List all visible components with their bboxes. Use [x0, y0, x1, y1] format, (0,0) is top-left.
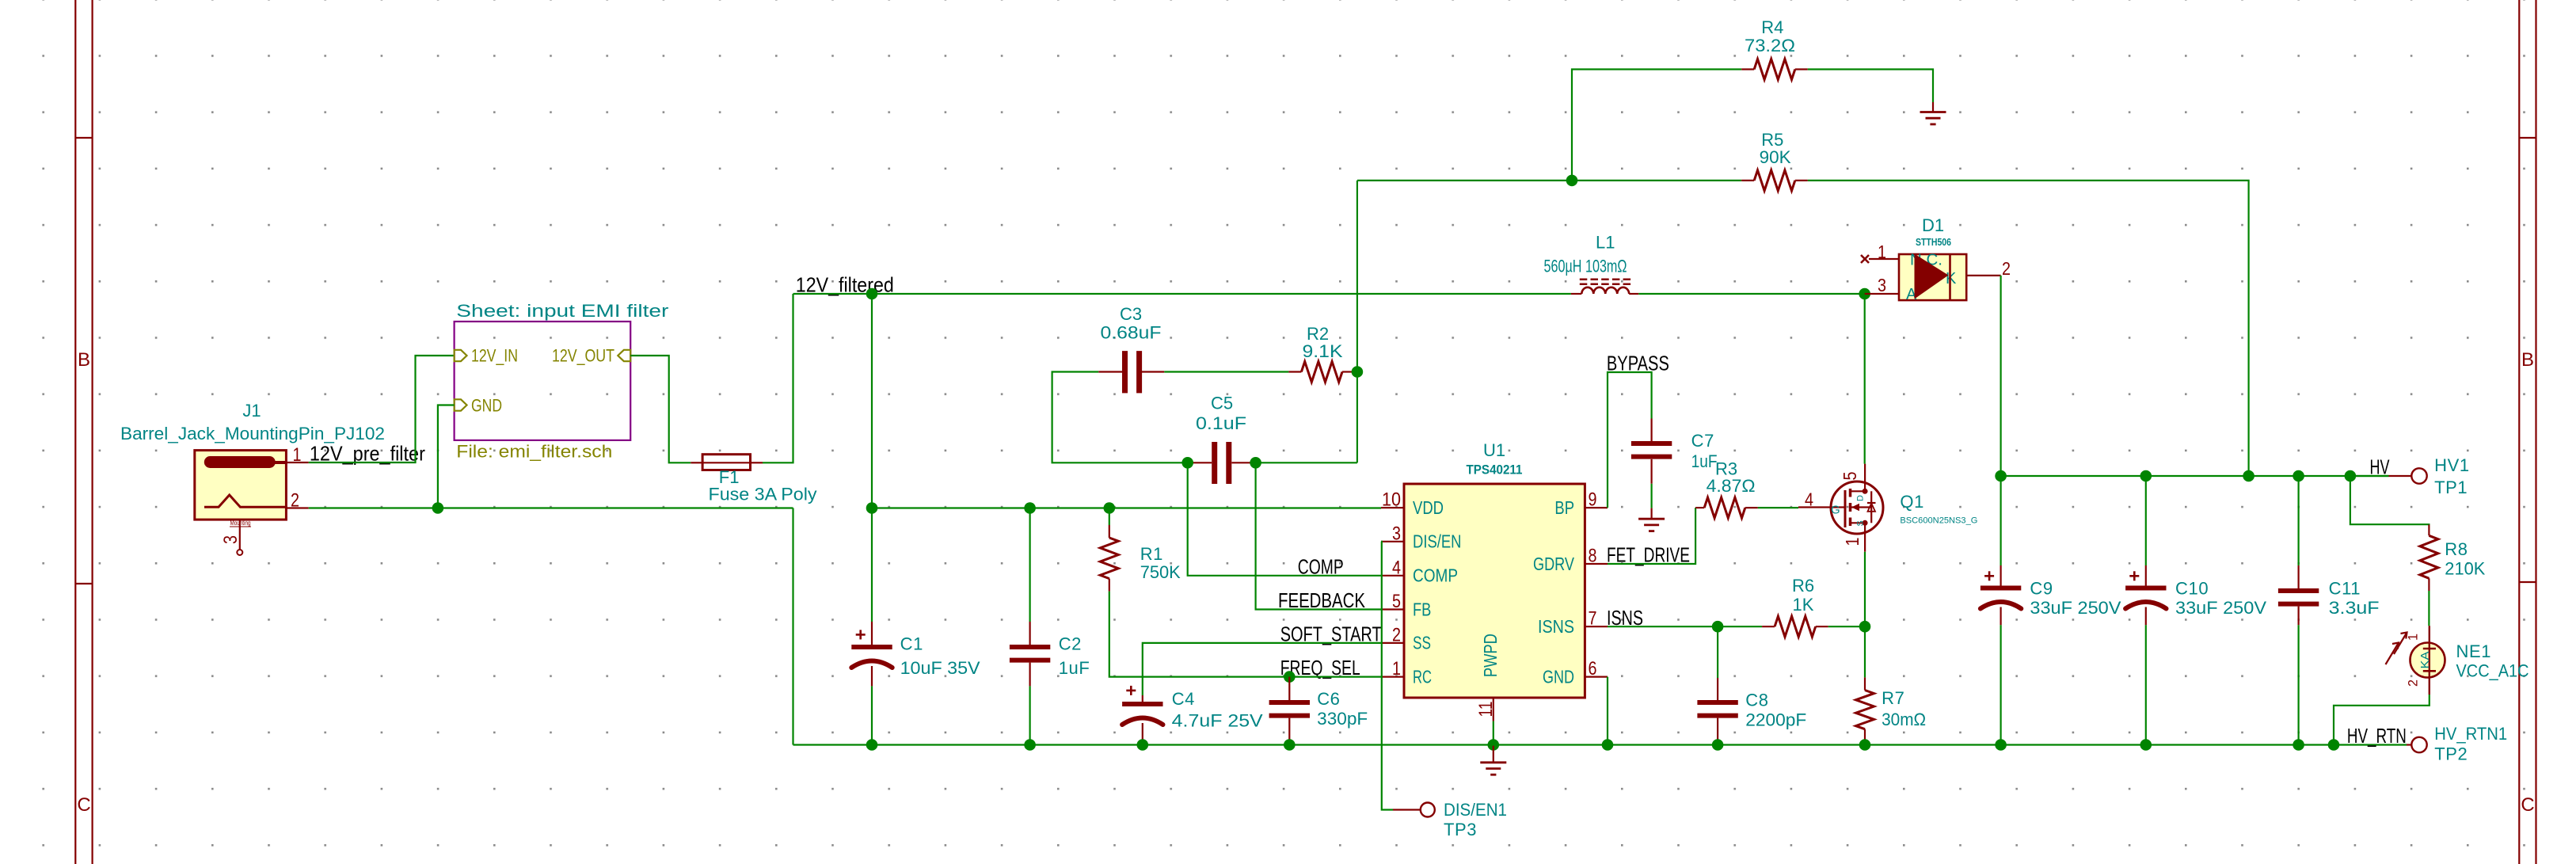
svg-text:R8: R8: [2445, 539, 2468, 559]
svg-text:BP: BP: [1554, 497, 1574, 518]
junction 12V_filtered at L1 D1 Q1 node: [1859, 288, 1870, 300]
svg-text:DIS/EN: DIS/EN: [1413, 531, 1462, 552]
svg-text:BSC600N25NS3_G: BSC600N25NS3_G: [1900, 516, 1977, 526]
svg-text:C5: C5: [1211, 394, 1233, 413]
U1 pin 5 FB: [1381, 608, 1404, 610]
D1 no-connect cross: [1861, 255, 1869, 263]
svg-text:C11: C11: [2329, 578, 2361, 598]
capacitor C11 bottom lead: [2298, 607, 2300, 626]
wire U1 DIS/EN pin 3 to TP3: [1381, 542, 1393, 810]
svg-text:1uF: 1uF: [1691, 451, 1718, 471]
svg-text:HV_RTN: HV_RTN: [2347, 724, 2407, 748]
wire R6 to Q1 source vertical: [1828, 626, 1865, 627]
svg-text:210K: 210K: [2445, 559, 2485, 579]
resistor R1 top lead: [1109, 508, 1110, 526]
svg-text:C: C: [2521, 794, 2534, 816]
junction R2 feedback vertical: [1352, 366, 1364, 378]
svg-text:VDD: VDD: [1413, 497, 1444, 518]
junction bottom rail at C1: [866, 739, 878, 751]
wire R5 right to HV rail: [1808, 181, 2249, 476]
svg-text:5: 5: [1392, 591, 1401, 612]
Q1 source arrow: [1851, 506, 1872, 508]
wire HV rail to TP1: [2350, 475, 2389, 477]
capacitor C6 top lead: [1288, 677, 1290, 700]
testpoint TP3 circle: [1421, 803, 1435, 817]
svg-text:TPS40211: TPS40211: [1467, 463, 1523, 478]
svg-text:0.1uF: 0.1uF: [1196, 413, 1246, 433]
U1 pin 2 SS: [1381, 642, 1404, 644]
wire C7 to ground symbol: [1651, 484, 1653, 508]
fuse F1 body: [702, 455, 750, 470]
junction bottom rail at C10: [2140, 739, 2152, 751]
wire sheet 12V_OUT to fuse F1: [630, 356, 691, 462]
U1 pin 3 DIS/EN: [1381, 541, 1404, 542]
capacitor C2 bottom lead: [1029, 663, 1030, 687]
svg-text:GND: GND: [1543, 666, 1574, 687]
wire U1 pin 6 GND to bottom rail: [1607, 677, 1608, 745]
resistor R1 bottom lead: [1109, 579, 1110, 592]
resistor R5 right lead: [1795, 180, 1808, 181]
Q1 gate bar: [1844, 490, 1847, 527]
border row tick B/C left: [75, 583, 92, 584]
sheet border left inner line: [91, 0, 93, 864]
junction sheet GND on J1 pin2 rail: [432, 502, 444, 514]
capacitor C8 bottom lead: [1717, 718, 1718, 745]
capacitor C4 plates: [1122, 702, 1162, 706]
junction bottom rail at C11: [2293, 739, 2304, 751]
capacitor C2 top lead: [1029, 508, 1030, 622]
svg-text:4: 4: [1392, 557, 1401, 578]
capacitor C1 polarity plus: [856, 634, 866, 636]
junction HV rail at C11: [2293, 470, 2304, 482]
svg-text:3.3uF: 3.3uF: [2329, 598, 2380, 618]
svg-text:33uF 250V: 33uF 250V: [2175, 598, 2266, 618]
svg-text:9.1K: 9.1K: [1303, 341, 1343, 361]
wire J1 pin1 to sheet 12V_IN: [309, 356, 455, 462]
border row tick A/B right: [2519, 137, 2536, 139]
hierarchical sheet input EMI filter: [455, 322, 631, 440]
wire 12V_filtered drop to VDD rail: [871, 294, 873, 508]
resistor R5 body: [1754, 170, 1795, 191]
svg-text:HV1: HV1: [2434, 455, 2470, 475]
svg-text:J1: J1: [242, 401, 261, 421]
U1 pin 7 ISNS: [1585, 626, 1608, 627]
wire 12V_filtered horizontal run: [793, 293, 1571, 295]
svg-text:30mΩ: 30mΩ: [1882, 710, 1926, 729]
capacitor C1 top lead: [871, 508, 873, 622]
resistor R3 right lead: [1745, 507, 1758, 508]
U1 pin 6 GND: [1585, 676, 1608, 677]
sheet border right outer line: [2535, 0, 2536, 864]
svg-text:HV_RTN1: HV_RTN1: [2434, 724, 2507, 744]
sheet pin 12V_IN: [455, 350, 467, 361]
wire bottom HV_RTN rail: [793, 744, 2407, 745]
svg-text:ISNS: ISNS: [1538, 616, 1574, 637]
capacitor C5 left lead: [1188, 462, 1212, 463]
wire L1 to D1 junction: [1638, 293, 1864, 295]
svg-text:560µH 103mΩ: 560µH 103mΩ: [1544, 257, 1627, 276]
connector J1 sleeve contact zigzag: [204, 495, 285, 507]
capacitor C9 polarity plus: [1984, 575, 1994, 577]
svg-text:90K: 90K: [1760, 147, 1791, 167]
junction feedback row at R4 branch: [1566, 175, 1578, 187]
wire U1 ISNS pin 7 to R6: [1608, 626, 1762, 627]
svg-text:B: B: [78, 349, 90, 371]
svg-text:R6: R6: [1792, 576, 1814, 596]
capacitor C10 top lead: [2145, 476, 2147, 565]
svg-text:Sheet: input EMI filter: Sheet: input EMI filter: [456, 301, 668, 321]
capacitor C6 bottom lead: [1288, 718, 1290, 745]
D1 pin 3 anode: [1865, 293, 1899, 295]
svg-text:1: 1: [1878, 242, 1886, 262]
resistor R4 body: [1754, 59, 1795, 80]
capacitor C1 bottom lead: [871, 666, 873, 686]
resistor R3 left lead: [1695, 507, 1704, 508]
ground symbol at R4: [1932, 102, 1934, 112]
svg-text:B: B: [2521, 349, 2534, 371]
resistor R7 top lead: [1864, 677, 1866, 690]
resistor R5 left lead: [1741, 180, 1754, 181]
lamp NE1 top lead: [2429, 626, 2430, 671]
svg-text:3: 3: [1878, 275, 1886, 295]
capacitor C10 plates: [2125, 586, 2166, 591]
svg-text:TP2: TP2: [2434, 744, 2468, 764]
Q1 channel bars: [1849, 489, 1852, 497]
wire R4 right to ground: [1808, 70, 1933, 103]
sheet pin GND: [455, 399, 467, 410]
svg-text:1: 1: [293, 444, 302, 466]
junction bottom rail at C2: [1024, 739, 1036, 751]
capacitor C3 left lead: [1098, 371, 1122, 372]
svg-text:12V_OUT: 12V_OUT: [552, 346, 615, 366]
J1 pin 2: [286, 507, 308, 508]
testpoint TP2 pin: [2407, 744, 2411, 745]
wire R1 bottom to U1 RC pin 1: [1109, 592, 1381, 677]
junction bottom rail at NE1 branch: [2328, 739, 2340, 751]
svg-text:6: 6: [1589, 658, 1597, 679]
svg-text:9: 9: [1589, 489, 1597, 511]
wire R2 to feedback vertical: [1355, 371, 1357, 372]
svg-text:1uF: 1uF: [1059, 658, 1090, 678]
junction bottom rail at C9: [1995, 739, 2007, 751]
U1 pin 10 VDD: [1381, 507, 1404, 508]
svg-text:2200pF: 2200pF: [1745, 710, 1806, 730]
svg-text:1: 1: [2406, 634, 2421, 641]
svg-text:8: 8: [1589, 546, 1597, 567]
testpoint TP1 circle: [2411, 468, 2426, 483]
junction C5 left COMP tap: [1181, 457, 1193, 469]
junction HV rail at R8 branch: [2345, 470, 2357, 482]
junction bottom rail at R7: [1859, 739, 1871, 751]
junction Q1 source at ISNS row: [1859, 621, 1871, 633]
lamp NE1 light arrows: [2394, 633, 2407, 655]
resistor R2 body: [1301, 362, 1342, 383]
svg-text:C1: C1: [900, 634, 923, 654]
capacitor C9 bottom lead: [2000, 607, 2002, 626]
border row tick A/B left: [75, 137, 92, 139]
svg-text:DIS/EN1: DIS/EN1: [1444, 800, 1507, 820]
junction ISNS row at C8: [1712, 621, 1724, 633]
svg-text:4: 4: [1805, 489, 1813, 510]
svg-text:3: 3: [1392, 523, 1401, 544]
svg-text:3: 3: [220, 535, 242, 544]
svg-text:2: 2: [2406, 679, 2421, 687]
svg-text:STTH506: STTH506: [1916, 237, 1951, 248]
wire HV rail to R8: [2350, 476, 2430, 526]
J1 pin 1: [286, 462, 308, 463]
capacitor C11 plates: [2278, 588, 2319, 593]
capacitor C10 bottom lead: [2145, 607, 2147, 626]
svg-text:11: 11: [1475, 702, 1497, 717]
wire fuse to 12V_filtered line: [763, 294, 793, 462]
wire Q1 drain to 12V_filtered junction: [1864, 294, 1866, 464]
resistor R2 right lead: [1342, 371, 1355, 372]
junction bottom rail at C8: [1712, 739, 1724, 751]
testpoint TP3 pin: [1393, 809, 1421, 810]
junction bottom rail at U1 pin 6: [1602, 739, 1614, 751]
Q1 drain lead: [1864, 464, 1866, 492]
connector J1 body: [195, 451, 287, 520]
svg-text:1: 1: [1392, 658, 1401, 679]
capacitor C10 polarity plus: [2129, 575, 2139, 577]
wire U1 BP pin 9 to C7: [1608, 372, 1652, 508]
diode D1 body: [1899, 254, 1966, 300]
capacitor C3 right lead: [1142, 371, 1164, 372]
capacitor C4 top lead: [1142, 695, 1143, 702]
J1 pin 3 MountingPin: [239, 520, 241, 550]
wire U1 pin 11 to ground rail: [1493, 721, 1494, 745]
svg-text:K: K: [1946, 270, 1957, 287]
svg-text:VCC_A1C: VCC_A1C: [2456, 660, 2529, 680]
IC U1 body: [1404, 484, 1585, 698]
svg-text:4.87Ω: 4.87Ω: [1707, 476, 1756, 496]
svg-text:C3: C3: [1120, 304, 1142, 324]
junction bottom rail at C4: [1137, 739, 1149, 751]
fuse F1 right pin: [751, 462, 763, 463]
svg-text:D1: D1: [1922, 215, 1944, 235]
wire COMP from C5 left to U1 pin 4: [1188, 462, 1381, 576]
Q1 body diode: [1870, 491, 1872, 523]
svg-text:750K: 750K: [1140, 562, 1181, 582]
sheet border right inner line: [2518, 0, 2520, 864]
svg-text:10uF 35V: 10uF 35V: [900, 658, 980, 678]
sheet pin 12V_OUT: [618, 350, 630, 361]
svg-text:RC: RC: [1413, 666, 1432, 687]
capacitor C7 plates: [1631, 441, 1672, 446]
junction bottom rail at C6: [1284, 739, 1296, 751]
resistor R7 body: [1856, 691, 1874, 729]
svg-text:NE1: NE1: [2456, 641, 2492, 661]
svg-text:Barrel_Jack_MountingPin_PJ102: Barrel_Jack_MountingPin_PJ102: [120, 424, 385, 443]
resistor R4 right lead: [1795, 68, 1808, 70]
wire C3 to R2: [1164, 371, 1288, 372]
svg-text:File: emi_filter.sch: File: emi_filter.sch: [456, 442, 612, 462]
resistor R4 left lead: [1741, 68, 1754, 70]
wire J1 pin2 rail drop to bottom rail: [792, 508, 793, 745]
svg-text:C: C: [77, 794, 90, 816]
svg-text:2: 2: [2002, 258, 2011, 279]
inductor L1 right lead: [1629, 293, 1638, 295]
resistor R8 top lead: [2428, 525, 2430, 536]
capacitor C1 plates: [851, 645, 892, 649]
svg-text:C8: C8: [1745, 691, 1768, 710]
svg-text:FB: FB: [1413, 599, 1431, 619]
capacitor C4 polarity plus: [1126, 690, 1136, 692]
junction bottom rail at U1 pin 11: [1488, 739, 1500, 751]
Q1 source link: [1851, 522, 1866, 523]
U1 pin 11 PWPD: [1493, 698, 1494, 721]
svg-text:PWPD: PWPD: [1480, 634, 1501, 677]
wire feedback row left of R5: [1357, 180, 1741, 181]
capacitor C5 plates: [1212, 442, 1217, 484]
svg-text:4.7uF 25V: 4.7uF 25V: [1172, 711, 1263, 731]
svg-text:G: G: [1831, 504, 1840, 517]
wire R3 to Q1 gate: [1758, 507, 1798, 508]
svg-text:R1: R1: [1140, 544, 1163, 564]
svg-text:12V_IN: 12V_IN: [471, 346, 518, 366]
capacitor C8 top lead: [1717, 626, 1718, 678]
resistor R8 body: [2420, 535, 2438, 578]
svg-text:C7: C7: [1691, 431, 1714, 451]
U1 pin 9 BP: [1585, 507, 1608, 508]
lamp NE1 bottom lead: [2429, 671, 2430, 695]
svg-text:U1: U1: [1483, 440, 1505, 460]
capacitor C4 bottom lead: [1142, 723, 1143, 745]
svg-text:C10: C10: [2175, 578, 2209, 598]
testpoint TP1 pin: [2389, 475, 2412, 477]
resistor R2 left lead: [1288, 371, 1301, 372]
transistor Q1 gate pin: [1798, 506, 1845, 508]
svg-text:Q1: Q1: [1900, 492, 1924, 512]
U1 pin 8 GDRV: [1585, 563, 1608, 565]
svg-text:7: 7: [1589, 608, 1597, 630]
svg-text:330pF: 330pF: [1317, 709, 1368, 729]
junction 12V_filtered at C1 branch: [866, 288, 878, 300]
wire NE1 to bottom rail: [2334, 695, 2430, 745]
wire SOFT_START C4 to U1 pin 2: [1143, 643, 1381, 695]
svg-text:2: 2: [1392, 624, 1401, 645]
D1 triangle: [1915, 254, 1949, 299]
ground symbol below C7: [1651, 508, 1653, 520]
connector J1 tip contact bar: [204, 456, 276, 468]
svg-text:R4: R4: [1761, 17, 1783, 37]
svg-text:1K: 1K: [1793, 595, 1814, 615]
wire R8 to NE1: [2428, 591, 2430, 626]
wire Q1 source down to R7: [1864, 552, 1866, 678]
junction HV rail at R5 drop: [2243, 470, 2254, 482]
svg-text:TP1: TP1: [2434, 478, 2468, 497]
junction RC row at C6: [1284, 671, 1296, 683]
Q1 drain link: [1851, 490, 1866, 492]
capacitor C11 top lead: [2298, 476, 2300, 565]
svg-text:COMP: COMP: [1413, 565, 1458, 586]
D1 cathode divider: [1949, 254, 1951, 300]
resistor R3 body: [1704, 497, 1745, 518]
resistor R7 bottom lead: [1864, 729, 1866, 745]
capacitor C7 top lead: [1651, 419, 1653, 442]
wire feedback vertical R2 to R5 row and C5 row: [1356, 181, 1358, 462]
capacitor C8 plates: [1697, 700, 1737, 705]
svg-text:73.2Ω: 73.2Ω: [1745, 36, 1795, 55]
capacitor C2 plates: [1010, 645, 1050, 649]
D1 pin 1 N.C.: [1869, 258, 1899, 260]
capacitor C6 plates: [1269, 700, 1310, 705]
resistor R6 body: [1775, 616, 1816, 637]
svg-text:5: 5: [1840, 472, 1860, 481]
resistor R6 right lead: [1816, 626, 1828, 627]
resistor R1 body: [1100, 538, 1118, 579]
svg-text:R7: R7: [1882, 688, 1904, 708]
svg-text:C4: C4: [1172, 689, 1195, 709]
inductor L1 left lead: [1571, 293, 1581, 295]
capacitor C9 top lead: [2000, 476, 2002, 565]
inductor L1 coils: [1581, 287, 1629, 294]
svg-text:1: 1: [1842, 538, 1863, 546]
svg-text:SS: SS: [1413, 633, 1431, 653]
svg-text:TP3: TP3: [1444, 820, 1477, 839]
svg-text:C2: C2: [1059, 634, 1082, 654]
svg-text:Fuse 3A Poly: Fuse 3A Poly: [709, 484, 817, 504]
wire C5 right to feedback vertical: [1256, 462, 1357, 463]
junction VDD rail at C2: [1024, 502, 1036, 514]
svg-text:GDRV: GDRV: [1533, 554, 1575, 574]
U1 pin 4 COMP: [1381, 575, 1404, 577]
wire U1 GDRV pin 8 to R3: [1608, 508, 1695, 564]
svg-text:0.68uF: 0.68uF: [1101, 323, 1162, 343]
lamp NE1 electrodes: [2423, 648, 2436, 650]
svg-text:L1: L1: [1596, 233, 1615, 253]
fuse F1 left pin: [691, 462, 702, 463]
resistor R6 left lead: [1762, 626, 1775, 627]
junction C5 right FB tap: [1250, 457, 1261, 469]
wire J1 pin2 rail: [309, 507, 793, 508]
capacitor C9 plates: [1981, 586, 2021, 591]
lamp NE1 body circle: [2410, 643, 2445, 678]
junction HV rail at C10: [2140, 470, 2152, 482]
border row tick B/C right: [2519, 581, 2536, 583]
wire HV rail: [2001, 475, 2389, 477]
svg-text:33uF 250V: 33uF 250V: [2030, 598, 2121, 618]
junction HV rail at D1 C9: [1995, 470, 2007, 482]
wire FEEDBACK from C5 right to U1 pin 5: [1256, 462, 1381, 609]
svg-text:C6: C6: [1317, 689, 1340, 709]
resistor R8 bottom lead: [2428, 578, 2430, 591]
sheet border left outer line: [74, 0, 76, 864]
svg-text:C9: C9: [2030, 578, 2053, 598]
svg-text:Mounting: Mounting: [230, 520, 251, 527]
capacitor C7 bottom lead: [1651, 459, 1653, 484]
transistor Q1 body circle: [1831, 481, 1883, 534]
capacitor C5 right lead: [1231, 462, 1255, 463]
wire VDD rail to U1: [872, 507, 1381, 508]
junction VDD rail at R1: [1104, 502, 1116, 514]
inductor L1 core dashes: [1580, 279, 1632, 281]
junction VDD rail at C1: [866, 502, 878, 514]
svg-text:2: 2: [291, 490, 299, 512]
svg-text:GND: GND: [471, 396, 502, 416]
capacitor C3 plates: [1122, 351, 1128, 393]
U1 pin 1 RC: [1381, 676, 1404, 677]
ground symbol below U1 pin 11: [1493, 745, 1494, 763]
wire D1 cathode to HV rail: [2000, 276, 2002, 476]
D1 pin 2 cathode: [1966, 275, 2000, 276]
Q1 source lead: [1864, 523, 1866, 551]
svg-text:D: D: [1856, 495, 1866, 501]
wire R4 left to feedback junction: [1572, 70, 1741, 181]
svg-text:S: S: [1856, 520, 1866, 526]
wire C3 left loop down to C5 row: [1052, 372, 1188, 463]
wire sheet GND to ground rail: [438, 405, 455, 508]
